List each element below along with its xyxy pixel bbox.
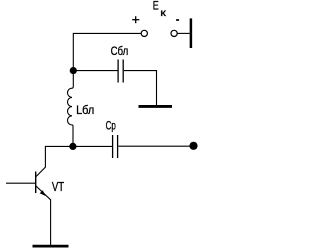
wire: - terminal to battery bar (177, 32, 189, 34)
capacitor Сбл (118, 60, 123, 83)
node: junction dot 2 (bottom of inductor) (69, 143, 76, 150)
label - (176, 19, 179, 21)
wire: emitter to ground (50, 199, 52, 245)
svg-text:E: E (153, 1, 159, 13)
svg-text:к: к (160, 8, 166, 19)
terminal - (open circle) (171, 30, 177, 36)
transistor VT base bar (35, 172, 37, 194)
node: output terminal dot (189, 142, 197, 150)
wire: junction 2 to collector (36, 146, 73, 176)
wire: top rail from corner to + terminal (73, 33, 141, 70)
svg-text:Ср: Ср (106, 119, 116, 133)
svg-text:VT: VT (52, 179, 64, 194)
capacitor Ср (113, 135, 118, 158)
battery bar (vertical plate) (190, 18, 193, 48)
wire: junction 1 to Сбл left plate (73, 70, 117, 72)
transistor VT emitter with arrow (36, 186, 51, 200)
svg-text:Lбл: Lбл (76, 103, 94, 117)
node: junction dot 1 (top of inductor) (70, 67, 77, 74)
label + (132, 16, 139, 23)
svg-text:Сбл: Сбл (111, 44, 129, 58)
ground (chassis bar, top right) (139, 105, 173, 108)
wire: Ср right plate to output (118, 145, 190, 147)
ground (bottom, emitter) (33, 245, 69, 248)
wire: junction 2 to Ср left plate (73, 145, 112, 147)
terminal + (open circle) (141, 30, 147, 36)
wire: Сбл right plate to ground (124, 71, 157, 105)
inductor Lбл (68, 71, 74, 147)
wire: base lead (6, 182, 36, 184)
